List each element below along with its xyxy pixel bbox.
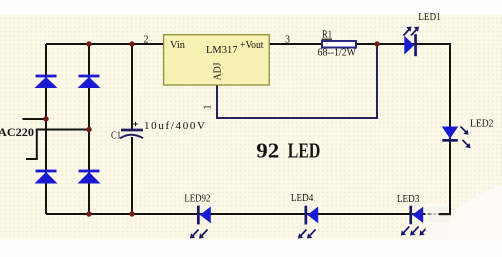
svg-text:AC220: AC220: [0, 127, 34, 139]
svg-text:68--1/2W: 68--1/2W: [318, 47, 357, 59]
svg-text:2: 2: [144, 35, 149, 46]
svg-text:LED1: LED1: [418, 12, 441, 23]
svg-text:R1: R1: [322, 28, 332, 40]
svg-text:3: 3: [285, 35, 290, 46]
svg-text:C1: C1: [111, 131, 121, 142]
svg-text:+Vout: +Vout: [240, 39, 264, 51]
svg-text:ADJ: ADJ: [213, 63, 224, 81]
svg-text:LED4: LED4: [291, 193, 314, 204]
svg-text:LM317: LM317: [206, 44, 238, 56]
svg-text:LED92: LED92: [184, 194, 210, 205]
svg-text:Vin: Vin: [170, 39, 185, 51]
svg-text:LED: LED: [288, 138, 321, 162]
svg-text:92: 92: [256, 138, 279, 162]
svg-text:LED3: LED3: [397, 194, 419, 205]
svg-text:1: 1: [203, 105, 214, 110]
svg-text:LED2: LED2: [470, 119, 494, 130]
